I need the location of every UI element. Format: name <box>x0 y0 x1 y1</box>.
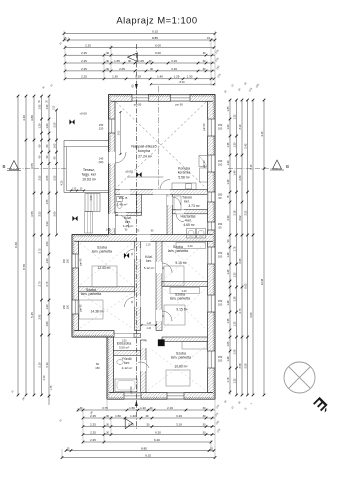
svg-text:1.20: 1.20 <box>232 142 236 148</box>
svg-text:2.25: 2.25 <box>81 75 87 79</box>
room label Terasz <box>82 168 97 177</box>
svg-text:1.28: 1.28 <box>232 296 236 302</box>
dimension chain left 1 <box>14 95 19 397</box>
wall interior bathroom north <box>114 351 141 356</box>
wall interior bathroom east <box>141 340 147 393</box>
roof dashed diagonal bedroom wing 1b <box>80 243 132 285</box>
svg-text:kerámia: kerámia <box>178 171 191 175</box>
rotated small labels bottom <box>59 405 221 434</box>
svg-text:60: 60 <box>96 362 99 366</box>
wall interior corridor east <box>156 241 162 330</box>
wall interior living room south <box>115 190 208 195</box>
svg-text:2.75: 2.75 <box>238 308 242 314</box>
section line B-B left stub <box>7 168 66 170</box>
svg-text:4.12 m²: 4.12 m² <box>122 366 133 370</box>
dimension chain bottom 5 <box>82 438 213 443</box>
svg-text:1.95: 1.95 <box>37 104 41 110</box>
kitchen shelf east <box>200 168 208 182</box>
svg-text:2.75: 2.75 <box>37 248 41 254</box>
wall exterior south (bottom) <box>107 393 215 400</box>
svg-text:WC e.: WC e. <box>119 196 129 200</box>
door swing bathroom <box>138 362 149 368</box>
roof dashed diagonal bedroom wing 2 <box>80 293 132 328</box>
svg-text:1.60: 1.60 <box>45 241 49 247</box>
exterior outline north <box>109 94 216 96</box>
svg-text:150: 150 <box>218 251 223 255</box>
level mark +0.00 exterior <box>69 119 74 124</box>
kitchen counter <box>172 156 208 190</box>
svg-text:60: 60 <box>219 196 222 200</box>
svg-text:2.25: 2.25 <box>85 43 91 47</box>
wall stub south of bedroom 2 <box>134 333 141 337</box>
svg-text:180: 180 <box>218 193 223 197</box>
svg-text:2.40: 2.40 <box>226 215 230 221</box>
svg-text:150: 150 <box>63 304 66 309</box>
svg-text:lam. parketta: lam. parketta <box>92 250 112 254</box>
svg-text:Nappali-étkező: Nappali-étkező <box>131 145 156 149</box>
svg-text:1.50: 1.50 <box>54 105 56 110</box>
svg-text:1.30: 1.30 <box>187 75 193 79</box>
door bathroom <box>141 360 147 371</box>
svg-text:1.35: 1.35 <box>232 321 236 327</box>
section line A bottom with arrow <box>125 400 138 429</box>
wall exterior west bottom block <box>107 337 114 393</box>
room label Szoba 4 <box>170 293 190 301</box>
rotated small labels right top <box>224 82 260 94</box>
svg-text:1.35: 1.35 <box>232 378 236 384</box>
window label east kitchen <box>218 193 223 201</box>
svg-text:5.58 m²: 5.58 m² <box>178 175 190 179</box>
svg-text:3.60: 3.60 <box>118 130 120 135</box>
svg-text:1.20: 1.20 <box>147 323 152 325</box>
svg-text:6.00: 6.00 <box>155 43 161 47</box>
insulation strip east wall <box>213 95 215 400</box>
svg-text:2.25: 2.25 <box>81 51 87 55</box>
svg-text:4.40: 4.40 <box>22 115 26 121</box>
svg-text:2.55: 2.55 <box>52 175 56 181</box>
svg-text:4.55: 4.55 <box>30 163 34 169</box>
svg-text:Terasz,: Terasz, <box>83 168 95 172</box>
svg-text:1.20: 1.20 <box>226 124 230 130</box>
svg-text:100: 100 <box>67 304 70 309</box>
svg-text:2.55: 2.55 <box>45 175 49 181</box>
svg-text:100: 100 <box>218 303 223 307</box>
svg-text:2.75: 2.75 <box>45 281 49 287</box>
exterior outline east <box>214 95 216 400</box>
svg-text:150: 150 <box>218 222 223 226</box>
window size labels west wing 1 <box>63 258 70 263</box>
entrance steps <box>85 194 100 212</box>
svg-text:1.58: 1.58 <box>232 349 236 355</box>
compass circle with X <box>284 362 315 393</box>
rotated small labels top right <box>59 42 221 78</box>
svg-text:B: B <box>3 164 6 169</box>
dimension chain left 6 <box>52 109 57 237</box>
exterior outline bottom block west <box>106 337 108 399</box>
svg-text:3.55: 3.55 <box>37 211 41 217</box>
svg-text:100: 100 <box>218 163 223 167</box>
svg-text:10.63 m²: 10.63 m² <box>82 178 97 182</box>
opening to bottom hall <box>142 342 157 349</box>
svg-text:9.15 m²: 9.15 m² <box>176 308 188 312</box>
window label east bottom bedroom <box>218 355 223 363</box>
window west living <box>109 119 116 133</box>
internal dimension living west <box>118 111 121 155</box>
wall exterior north (top) <box>109 95 216 102</box>
exterior outline west upper <box>108 95 110 235</box>
extension lines top chains <box>64 31 215 87</box>
door west terrace <box>109 152 116 164</box>
svg-text:lam. parketta: lam. parketta <box>171 356 191 360</box>
wall interior corridor west <box>135 241 141 330</box>
bed right bedroom 2 <box>164 305 185 325</box>
dimension chain top 7 <box>64 75 216 80</box>
insulation strip wing south wall <box>72 335 114 337</box>
dimension chain top 2 (8.85) <box>63 36 217 41</box>
window label south 1 <box>95 362 100 370</box>
dimension chain right 1 <box>226 99 231 395</box>
svg-text:1.76: 1.76 <box>232 246 236 252</box>
svg-text:1.20: 1.20 <box>45 304 49 310</box>
svg-text:2.70: 2.70 <box>37 281 41 287</box>
dimension chain right 5 <box>249 99 254 397</box>
svg-text:pm 90: pm 90 <box>175 103 183 107</box>
svg-text:1.50: 1.50 <box>129 406 135 410</box>
svg-text:100: 100 <box>218 255 223 259</box>
axis dash-dot living room <box>158 86 160 190</box>
svg-text:1.20: 1.20 <box>146 244 151 247</box>
svg-text:6.02: 6.02 <box>243 283 247 289</box>
room label Szoba 3 <box>168 245 188 253</box>
room label Szoba 5 <box>171 352 191 360</box>
svg-text:3.58: 3.58 <box>238 363 242 369</box>
svg-text:2.25: 2.25 <box>81 59 87 63</box>
window north 2 <box>171 95 191 102</box>
svg-text:1.28: 1.28 <box>226 252 230 258</box>
exterior outline wing north <box>72 234 109 236</box>
svg-text:4.25: 4.25 <box>61 180 64 185</box>
svg-text:150: 150 <box>218 159 223 163</box>
svg-text:1.90: 1.90 <box>45 221 49 227</box>
svg-text:pm 90: pm 90 <box>134 103 142 107</box>
svg-text:1.28: 1.28 <box>226 356 230 362</box>
section line B-B right stub <box>228 168 281 170</box>
svg-text:100: 100 <box>218 127 223 131</box>
window north 1 <box>132 95 149 102</box>
svg-text:8.70: 8.70 <box>22 264 26 270</box>
door to haztartas <box>176 210 184 214</box>
svg-text:1.05: 1.05 <box>106 230 111 232</box>
svg-text:±0.00: ±0.00 <box>125 170 133 174</box>
wall interior wc south <box>115 212 142 215</box>
svg-text:1.05: 1.05 <box>138 59 144 63</box>
svg-text:150: 150 <box>218 299 223 303</box>
walkway to entry <box>85 212 93 234</box>
exterior outline wing south <box>72 336 114 338</box>
door swing haztartas <box>176 214 184 222</box>
room label WC <box>119 196 129 200</box>
svg-text:140: 140 <box>99 157 104 161</box>
svg-text:(90): (90) <box>99 160 104 164</box>
insulation strip north wall <box>109 95 216 97</box>
opening living to hall <box>153 190 170 195</box>
svg-text:1.49: 1.49 <box>226 179 230 185</box>
insulation strip west wall bottom block <box>107 337 109 399</box>
svg-text:8.85: 8.85 <box>152 36 158 40</box>
window east bedroom 1 <box>208 247 216 264</box>
dimension chain bottom 2 <box>82 414 215 419</box>
svg-text:pm 90: pm 90 <box>130 386 133 394</box>
svg-text:3.80: 3.80 <box>30 115 34 121</box>
svg-text:3.02: 3.02 <box>238 215 242 221</box>
dimension chain top 6 <box>64 67 215 72</box>
dimension chain right 4 <box>243 99 248 397</box>
dimension chain bottom 6 <box>65 446 216 451</box>
svg-text:3.73 m²: 3.73 m² <box>188 204 200 208</box>
room label Konyha <box>178 167 191 175</box>
dimension chain left 5 <box>45 95 50 405</box>
svg-text:8.10: 8.10 <box>179 80 185 84</box>
door wc area <box>120 190 130 195</box>
rotated small labels right bottom <box>224 400 253 411</box>
svg-text:Alaprajz M=1:100: Alaprajz M=1:100 <box>116 15 197 26</box>
svg-text:3.19: 3.19 <box>171 59 177 63</box>
wall interior storage south <box>173 210 208 214</box>
door hall to storage <box>167 197 173 206</box>
room label Haztartas <box>181 215 196 223</box>
insulation strip wing north wall left part <box>72 235 109 237</box>
wall wing south <box>72 331 114 338</box>
dimension chain left 4 <box>37 95 42 397</box>
roof dashed diagonal bedroom wing 1 <box>80 243 132 285</box>
dimension chain top 1 (9.15) <box>63 29 217 34</box>
svg-text:1.29: 1.29 <box>174 75 180 79</box>
dimension chain left 3 <box>30 95 35 397</box>
dimension chain bottom 4 <box>82 430 215 435</box>
roof dashed diagonal bottom room 1 <box>148 347 205 390</box>
window label west living 150/120 <box>99 123 104 131</box>
svg-text:10.80 m²: 10.80 m² <box>174 365 188 369</box>
roof dashed diagonal right bedroom 2b <box>164 289 205 328</box>
svg-text:pm 90: pm 90 <box>203 160 206 168</box>
svg-text:2.25: 2.25 <box>90 422 96 426</box>
svg-text:120: 120 <box>99 127 104 131</box>
door wc from hall <box>118 212 126 215</box>
svg-text:3.10: 3.10 <box>238 124 242 130</box>
svg-text:8.15: 8.15 <box>249 164 253 170</box>
svg-text:1.05: 1.05 <box>226 341 230 347</box>
room label Furdo <box>122 357 131 365</box>
dimension chain right 6 <box>260 99 265 397</box>
svg-text:3.60: 3.60 <box>52 211 56 217</box>
door swing kitchen to living <box>160 180 170 190</box>
level line living <box>127 176 164 178</box>
section mark B left <box>3 161 21 171</box>
window west bedroom 1 <box>72 254 79 268</box>
svg-text:1.35: 1.35 <box>226 318 230 324</box>
roof dashed diagonal bedroom wing 2b <box>80 293 132 328</box>
svg-text:1.35: 1.35 <box>232 272 236 278</box>
svg-text:9.60: 9.60 <box>14 242 18 248</box>
wall exterior east (right) <box>208 101 216 392</box>
dimension chain top 5 <box>64 59 215 64</box>
dimension line 8.10 inner <box>150 80 215 85</box>
chimney solid black <box>158 340 165 347</box>
wardrobe right bedroom 2 <box>170 288 200 294</box>
insulation strip south wall <box>107 397 215 399</box>
window label east haztartas <box>218 222 223 230</box>
door swing right bedroom 2 <box>162 311 172 321</box>
wardrobe right bedroom 1 <box>176 243 206 249</box>
dimension chain bottom 7 <box>61 453 217 458</box>
room label Nappali-etkezo konyha <box>131 145 156 154</box>
svg-text:2.19: 2.19 <box>167 406 173 410</box>
bed left bedroom 1 <box>92 266 117 287</box>
svg-text:konyha: konyha <box>138 149 151 153</box>
door swing left bedroom 1 <box>125 249 135 259</box>
entry door swing <box>115 214 129 228</box>
svg-text:3.19: 3.19 <box>176 414 182 418</box>
dimension chain top 4 <box>64 51 215 56</box>
rotated small labels left top <box>11 84 55 401</box>
roof dashed diagonal living room 1 <box>116 102 206 188</box>
svg-text:1.55: 1.55 <box>45 199 49 205</box>
svg-text:9.15 m²: 9.15 m² <box>175 261 187 265</box>
svg-text:6.00: 6.00 <box>155 51 161 55</box>
svg-text:1.20: 1.20 <box>45 123 49 129</box>
svg-text:150: 150 <box>218 123 223 127</box>
door swing storage <box>173 197 181 205</box>
svg-text:lam. parketta: lam. parketta <box>81 292 101 296</box>
svg-text:1.29: 1.29 <box>135 75 141 79</box>
level mark corridor <box>124 253 129 258</box>
svg-text:1.20: 1.20 <box>45 258 49 264</box>
svg-text:fagy. ker: fagy. ker <box>82 173 97 177</box>
svg-text:5.45: 5.45 <box>243 143 247 149</box>
window label east living2 <box>218 159 223 167</box>
room label Eloszoba <box>117 342 131 346</box>
svg-text:2.90: 2.90 <box>90 195 93 200</box>
spacer <box>145 354 147 356</box>
svg-text:2.30: 2.30 <box>238 175 242 181</box>
svg-text:3.50 m²: 3.50 m² <box>119 346 129 350</box>
bathroom sink <box>117 360 123 365</box>
entry door opening west wall <box>109 214 116 228</box>
window east bedroom 2 <box>208 295 216 312</box>
room label Tarolo <box>182 196 192 204</box>
dimension chain right 2 <box>232 99 237 397</box>
door swing right bedroom 1 <box>162 263 172 273</box>
svg-text:2.25: 2.25 <box>90 430 96 434</box>
exterior outline wing west <box>71 235 73 338</box>
svg-text:3.18: 3.18 <box>232 210 236 216</box>
bed left bedroom 2 <box>79 300 103 319</box>
bed bottom bedroom <box>166 370 190 386</box>
dimension chain right 3 <box>238 99 243 397</box>
svg-text:lam. parketta: lam. parketta <box>170 297 190 301</box>
terrace outline <box>64 141 109 193</box>
room label Szoba 1 <box>92 246 112 254</box>
svg-text:3.55: 3.55 <box>30 211 34 217</box>
svg-text:1.35: 1.35 <box>232 114 236 120</box>
wc toilet <box>117 197 123 209</box>
wall interior bottom bedroom north <box>162 337 208 342</box>
window east living 1 <box>208 119 216 136</box>
svg-text:1.49: 1.49 <box>232 170 236 176</box>
svg-text:6.40: 6.40 <box>154 438 160 442</box>
window label east bedroom1 <box>218 251 223 259</box>
exterior outline south <box>107 398 215 400</box>
internal dimension above wing wall <box>70 188 85 191</box>
svg-text:9.60: 9.60 <box>249 312 253 318</box>
window west bedroom 2 <box>72 300 79 314</box>
svg-text:3.58: 3.58 <box>243 363 247 369</box>
window label west door 140/90 <box>99 157 104 165</box>
svg-text:1.35: 1.35 <box>226 106 230 112</box>
svg-text:pm 90: pm 90 <box>80 258 83 266</box>
level mark plusminus 0.00 living <box>136 172 141 177</box>
wall interior between left bedrooms <box>79 287 135 292</box>
wall wing north (top of bedroom wing) <box>72 235 215 242</box>
svg-text:1.20: 1.20 <box>226 160 230 166</box>
svg-text:60: 60 <box>219 226 222 230</box>
svg-text:3.19: 3.19 <box>176 422 182 426</box>
washing machines hatartasi <box>187 229 206 239</box>
wall exterior west upper <box>109 101 116 234</box>
storage shelf <box>174 196 181 210</box>
svg-text:100: 100 <box>218 359 223 363</box>
spacer2 <box>161 347 163 349</box>
svg-text:1.35: 1.35 <box>226 142 230 148</box>
svg-text:2.25: 2.25 <box>81 67 87 71</box>
svg-text:3.19: 3.19 <box>171 67 177 71</box>
svg-text:2.55: 2.55 <box>37 175 41 181</box>
svg-text:13.45: 13.45 <box>260 278 264 285</box>
svg-text:1.05: 1.05 <box>52 143 56 149</box>
svg-text:1.80: 1.80 <box>45 321 49 327</box>
svg-text:2.70: 2.70 <box>128 422 134 426</box>
svg-text:1.40: 1.40 <box>157 75 163 79</box>
svg-text:100: 100 <box>67 258 70 263</box>
insulation strip west wall wing <box>72 235 74 338</box>
door right bedroom 2 <box>156 310 162 321</box>
dimension chain bottom 1 <box>77 406 215 411</box>
window east haztartas <box>208 222 216 230</box>
window south 1 <box>124 393 141 400</box>
roof dashed diagonal right bedroom 1 <box>164 243 205 279</box>
svg-text:2.40: 2.40 <box>43 375 46 380</box>
roof dashed diagonal bottom room 2 <box>148 347 205 390</box>
door left bedroom 2 <box>135 296 141 307</box>
svg-text:2.25: 2.25 <box>90 438 96 442</box>
svg-text:9.15: 9.15 <box>152 29 158 33</box>
roof dashed diagonal right bedroom 1b <box>164 243 205 279</box>
roof dashed diagonal right bedroom 2 <box>164 289 205 328</box>
door right bedroom 1 <box>156 262 162 273</box>
svg-text:2.95: 2.95 <box>37 314 41 320</box>
svg-text:1.65: 1.65 <box>114 59 120 63</box>
svg-text:150: 150 <box>99 123 104 127</box>
svg-text:150: 150 <box>218 355 223 359</box>
svg-text:1.20: 1.20 <box>140 406 146 410</box>
insulation strip west wall upper <box>109 95 111 235</box>
door west terrace swing <box>115 152 126 163</box>
dimension chain bottom 3 <box>82 422 215 427</box>
dimension chain left 2 <box>22 95 27 397</box>
window east living 2 <box>208 155 216 172</box>
svg-text:8.85: 8.85 <box>141 446 147 450</box>
svg-text:9.15: 9.15 <box>145 453 151 457</box>
